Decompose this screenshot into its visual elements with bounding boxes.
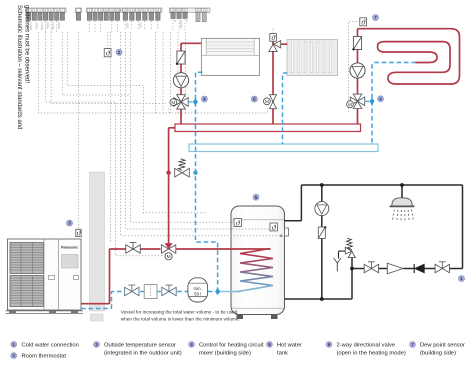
svg-text:Panasonic: Panasonic [61,246,78,250]
svg-text:COOL: COOL [138,22,141,29]
radiator [287,40,338,76]
svg-text:2-way directional valve: 2-way directional valve [337,342,396,348]
svg-text:50 l: 50 l [194,292,201,297]
cooling circuit dashed blue lines [81,63,416,309]
node 2 room thermostat [116,49,122,55]
svg-text:M: M [171,100,175,105]
3-way valve at tank [161,245,175,254]
tank heating coil [231,249,273,292]
svg-text:12: 12 [116,9,120,13]
wire bus y=85.4 then down right side [67,32,207,213]
sensor box room thermostat (2) [104,49,111,57]
sensor box tank right [270,223,277,231]
terminal strip groups [26,8,210,12]
wire fan coil supply riser [181,43,201,124]
mixing valve floor (4-port with M) [350,94,364,108]
sensor box dew point (7) [360,18,367,26]
actuator M fan coil mixer [170,99,177,106]
junction dot supply side [166,171,170,175]
svg-text:N: N [185,20,188,22]
wire radiator return [283,73,288,144]
wire circulation branch [321,185,323,299]
wire radiator supply riser [273,41,287,124]
svg-text:Schematic illustration – relev: Schematic illustration – relevant standa… [16,5,22,129]
wire drain line [339,251,349,258]
mixing valve fan coil (4-port with M) [174,95,188,109]
svg-text:M: M [173,20,176,22]
fan coil unit [201,38,259,75]
wire floor heating riser [357,29,359,124]
filter fan coil circuit [176,51,185,65]
node 3 outside sensor [67,220,73,226]
svg-text:mixer (building side): mixer (building side) [199,350,251,356]
node 4 floor mixer control [378,96,384,102]
hot water tank (5) [231,206,289,319]
svg-text:20: 20 [177,9,181,13]
svg-text:21: 21 [183,9,187,13]
node 4 fan coil mixer control [201,96,207,102]
wall lower block [91,314,104,321]
shut-off valve DHW right [435,262,449,273]
buffer vessel min 50 l [188,278,208,302]
wire bus y=103.5 toward fancoil valve [51,32,166,104]
terminal connector blocks [27,13,188,21]
node 6 2-way valve [251,96,257,102]
svg-text:Control for heating circuit: Control for heating circuit [199,342,264,348]
svg-text:guidelines must be observed!: guidelines must be observed! [23,5,29,83]
svg-text:10: 10 [105,9,109,13]
sensor boxes (theta) [76,18,367,237]
svg-text:CLOSE: CLOSE [51,22,54,31]
actuator M floor mixer [347,101,354,108]
wire bundle v2 to tank valve M [46,32,165,256]
svg-text:230VAC: 230VAC [179,20,182,29]
expansion box on vessel line [144,285,157,299]
svg-text:18: 18 [156,9,160,13]
floor heating serpentine loop [358,29,460,84]
shower head [392,198,412,206]
tank side tab [285,228,289,236]
wire cold water line with valves [352,268,463,270]
wire shower stem [401,185,403,199]
svg-text:11: 11 [110,9,113,13]
domestic hot water black pipes [285,185,463,299]
junction diamond floor valve [369,98,374,105]
svg-text:tank: tank [277,350,288,356]
wire hot water outlet [285,185,463,269]
wire outdoor sensor drop [78,32,80,229]
terminal micro labels [29,20,188,31]
svg-text:CLOSE: CLOSE [40,22,43,31]
wire outdoor unit cooling line [81,292,215,309]
wire dew point sensor to floor valve M [349,22,361,113]
svg-text:OPEN: OPEN [46,22,49,29]
outdoor unit (Panasonic) [6,239,84,313]
svg-text:19: 19 [171,9,175,13]
vessel line valve left [125,285,139,296]
svg-text:22: 22 [196,9,200,13]
short dashed stubs under connectors [29,20,185,33]
heating red pipes [81,29,460,304]
wire cold feed to tank [285,269,353,300]
safety relief valve DHW [345,247,355,257]
wire feeder y=95 into bundle v5 [62,32,130,95]
pump fan coil circuit [173,73,188,88]
wall between outdoor and indoor [90,172,105,311]
actuator M radiator valve [264,98,271,105]
return manifold (cyan) [189,144,378,152]
sensor box outdoor temperature (3) [76,229,81,236]
pump floor circuit [350,63,365,78]
junction dots DHW [320,183,324,187]
cold water connection marker [459,276,465,282]
svg-text:min.: min. [194,286,202,291]
svg-text:OPEN: OPEN [34,22,37,29]
wire fan coil chilled return [196,72,218,289]
2-way directional valve radiator [270,95,277,109]
wire room thermostat drop [107,32,109,49]
funnel drain [334,258,341,272]
svg-text:M: M [167,254,171,260]
node 7 dew point sensor [373,15,379,21]
numbered circles in diagram [67,15,384,227]
svg-text:23: 23 [203,9,207,13]
vessel line valve right [162,285,176,296]
wire riser to fan coil valve M from bus [168,106,170,113]
svg-text:(building side): (building side) [420,350,456,356]
wire bundle v3 thermowell in tank [121,32,282,236]
wire bundle v5 to tank sensor left [131,32,234,222]
circulation pump DHW [315,202,329,216]
wire bus y=113 to radiator valve M [39,32,268,113]
actuator M tank 3-way valve [165,253,172,260]
svg-text:Hot water: Hot water [277,342,302,348]
svg-text:13: 13 [124,9,128,13]
sensor box radiator thermostat [270,34,277,42]
node 5 hot water tank [253,194,259,200]
svg-text:M: M [265,99,269,104]
supply manifold (red) [175,124,361,132]
wire manifold feed down-pipe [169,128,176,243]
svg-text:Room thermostat: Room thermostat [22,354,67,360]
sensor box tank left [234,219,241,227]
wire floor loop cooling branch [372,63,416,145]
svg-text:16: 16 [143,9,147,13]
svg-text:OPEN: OPEN [57,22,60,29]
svg-text:HEAT: HEAT [125,22,128,29]
shut-off valve heat pump supply [126,243,140,254]
check valve [413,264,415,273]
bypass valve between supply and return [175,168,190,177]
wire valve to tank coil [176,248,271,250]
svg-text:Outside temperature sensor: Outside temperature sensor [104,342,176,348]
wire drops ending at bus [156,32,186,113]
legend [11,342,465,360]
junction diamond at coil return [215,288,220,295]
wire theta6 stub [272,28,274,33]
svg-text:M: M [348,102,352,107]
junction diamond fan coil valve [193,98,198,105]
svg-text:(open in the heating mode): (open in the heating mode) [337,350,406,356]
svg-text:17: 17 [150,9,154,13]
coil return line to vessel junction [218,291,241,293]
wire bundle v1 [110,32,112,242]
svg-text:15: 15 [137,9,141,13]
grey dotted control wires [39,22,361,256]
svg-text:Cold water connection: Cold water connection [22,342,79,348]
wire bundle v4 to tank sensor right [126,32,270,229]
wire relief drop [351,257,353,268]
filter floor circuit [352,37,361,51]
wire heat pump supply line [81,249,161,304]
svg-text:Vessel for increasing the tota: Vessel for increasing the total water vo… [121,310,238,315]
svg-text:(integrated in the outdoor uni: (integrated in the outdoor unit) [104,350,182,356]
junction dot return side [193,171,197,175]
svg-text:when the total volume is lower: when the total volume is lower than the … [121,317,240,322]
filter DHW [318,226,326,238]
shut-off valve DHW left [364,262,378,273]
svg-text:14: 14 [130,9,134,13]
pressure reducing valve [387,263,403,274]
svg-text:Dew point sensor: Dew point sensor [420,342,465,348]
thermostatic valve radiator [269,41,281,52]
